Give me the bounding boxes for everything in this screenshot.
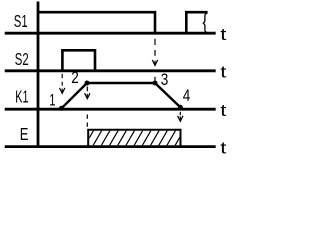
- dashed arrow from node 4 to E bar end: [178, 112, 183, 122]
- svg-text:E: E: [20, 125, 29, 145]
- node 2 dot: [85, 81, 90, 86]
- time axis K1: [5, 108, 216, 111]
- svg-text:t: t: [220, 63, 227, 82]
- svg-text:2: 2: [71, 68, 79, 87]
- time axis E: [5, 145, 216, 148]
- svg-text:t: t: [220, 101, 227, 120]
- S1 second pulse rising edge and top: [186, 12, 207, 33]
- svg-text:4: 4: [183, 86, 191, 105]
- K1 waveform trapezoid: [62, 83, 181, 108]
- svg-text:S1: S1: [14, 11, 28, 31]
- node 1 dot: [59, 106, 64, 111]
- svg-text:K1: K1: [15, 88, 28, 107]
- node 3 dot: [153, 81, 158, 86]
- time axis S2: [5, 69, 216, 72]
- svg-text:3: 3: [161, 71, 169, 90]
- node 4 dot: [178, 105, 183, 110]
- svg-text:1: 1: [49, 91, 55, 110]
- time axis S1: [5, 32, 216, 35]
- S1 waveform high segment and falling edge: [38, 12, 155, 33]
- svg-text:t: t: [220, 25, 227, 44]
- S2 pulse: [62, 50, 95, 71]
- dashed arrow from node 2 to E bar start: [85, 87, 90, 127]
- S1 continuation brace: [203, 13, 207, 32]
- dashed arrow from S1 falling edge to node 3: [152, 39, 157, 81]
- svg-text:S2: S2: [15, 49, 29, 69]
- svg-text:t: t: [220, 139, 227, 158]
- vertical signal axis: [37, 2, 40, 148]
- dashed arrow from S2 rising edge to node 1: [60, 74, 65, 94]
- E hatched bar: [84, 129, 185, 147]
